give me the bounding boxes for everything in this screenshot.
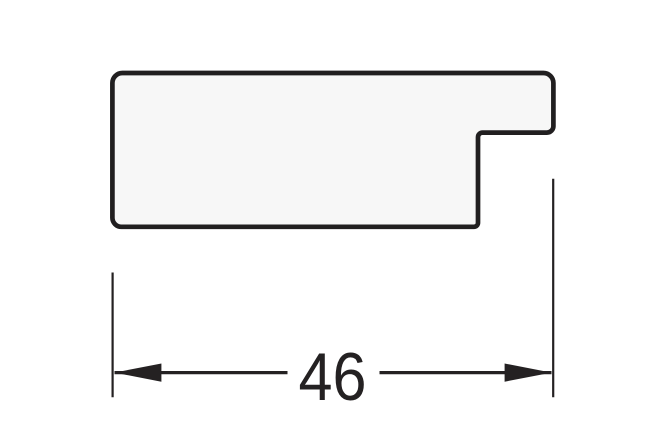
svg-text:46: 46	[299, 339, 367, 415]
